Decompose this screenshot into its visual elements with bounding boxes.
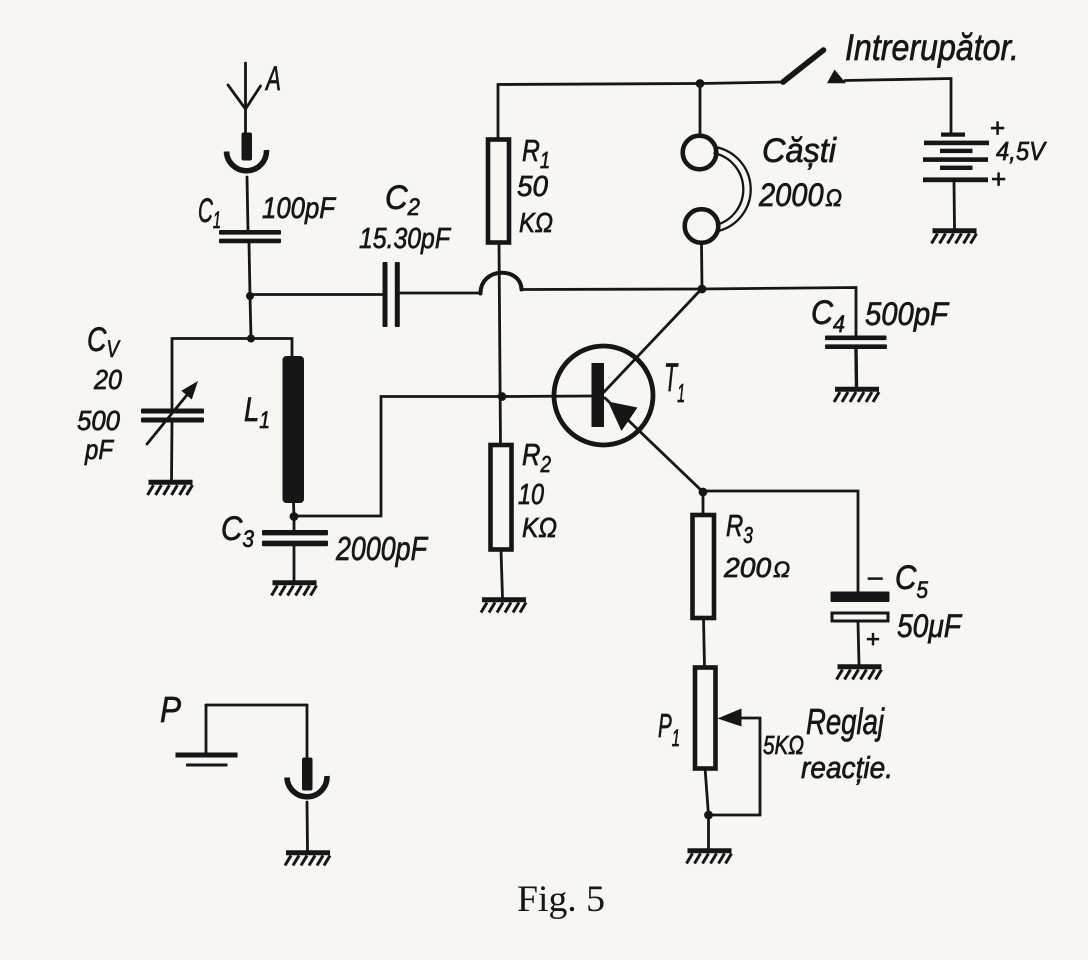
capacitor C2 plates [383,262,388,327]
svg-text:P: P [160,689,181,730]
wire antenna jack to C1 [247,177,248,231]
antenna arms [228,85,261,109]
wire J3 to C3 [293,517,296,531]
wire J6 right to C5 [703,491,858,592]
svg-text:KΩ: KΩ [519,207,553,238]
junction node J1 [246,292,254,300]
wire P1 wiper feedback loop [709,718,760,815]
svg-text:5KΩ: 5KΩ [763,730,804,760]
svg-text:500pF: 500pF [865,296,950,332]
junction node J5 [698,285,707,294]
wire R1 bottom to R2 top [499,243,501,445]
wire J4 to top earphone [699,84,702,137]
wire J2 to L1 top [251,339,292,358]
wire battery bottom to ground [953,182,956,229]
switch blade (open) [783,50,824,82]
P1 wiper arrowhead [718,709,742,727]
capacitor C3 plates [262,530,328,535]
ground under C4 [834,389,879,402]
svg-text:+: + [866,626,880,653]
wire hump to node J5 [521,288,700,291]
wire bottom earphone to J5 [700,244,703,290]
antenna jack plug (filled pin) [242,133,253,161]
svg-text:KΩ: KΩ [522,512,557,543]
wire jack arc to ground [306,802,309,851]
wire C4 to ground [854,349,858,388]
resistor R1 body [488,140,509,243]
svg-text:4,5V: 4,5V [996,136,1047,166]
ground under R2 [481,600,526,613]
wire J4 to switch hinge [700,82,783,84]
resistor R2 body [491,445,512,550]
wire C1 to node J1 [249,243,250,296]
inductor L1 (solid bar) [283,356,305,503]
transistor T1 base bar [592,363,605,427]
svg-text:Intrerupător.: Intrerupător. [845,27,1019,68]
headphone band arcs [715,147,751,231]
wire J1 right to C2 left plate [250,293,383,296]
junction node J6 [699,488,708,497]
svg-text:Căști: Căști [762,132,837,170]
svg-text:2000pF: 2000pF [335,530,428,567]
ground under CV [148,482,193,495]
svg-text:50μF: 50μF [897,608,963,644]
wire switch arrow to battery top [845,79,951,133]
capacitor C4 plates [825,336,887,341]
capacitor C1 plates [219,230,281,235]
CV arrowhead [181,381,198,400]
svg-text:pF: pF [84,434,114,465]
svg-text:–: – [868,561,883,591]
ground under C5 [837,667,882,680]
antenna A mast wire [244,63,247,133]
ground under P jack [285,853,330,866]
earth symbol at P (two bars) [176,753,238,758]
capacitor C5 bottom plate (outline) [832,613,888,621]
wire C3 to ground [293,546,296,581]
junction node J2 [247,335,255,343]
wire L1 bottom to node J3 [292,502,295,517]
wire J3 to base of T1 [294,396,591,516]
svg-text:10: 10 [518,479,544,511]
earphone top cup [683,136,717,170]
emitter arrowhead (PNP, pointing into base) [608,402,638,432]
svg-text:200 Ω: 200 Ω [723,552,790,583]
svg-text:20: 20 [93,364,122,395]
wire P to earth [205,705,208,753]
wire R3 to P1 [704,618,705,667]
svg-text:+: + [991,164,1006,194]
wire J2 left to Cv [172,339,251,410]
junction node J3 [290,512,299,521]
wire R1 top to node J4 [498,84,700,140]
jack plug pin at P terminal [302,758,313,791]
ground under battery [932,231,977,244]
svg-text:A: A [265,60,281,98]
svg-text:reacție.: reacție. [801,750,893,785]
junction node J7 [704,811,713,820]
switch arrow contact [827,70,846,84]
wire J5 right to C4 [700,288,856,337]
junction node J4 [696,79,705,88]
battery B1 plates [941,133,965,137]
wire C2 right plate to hump [400,292,481,295]
CV arrow [147,390,191,444]
emitter wire T1 to node J6 [605,398,703,492]
variable capacitor CV plates [141,409,204,414]
junction node base [498,392,507,401]
jack socket arc at P terminal [287,776,327,797]
wire C5 to ground [858,622,859,665]
wire terminal P horizontal [206,704,307,707]
wire P1 bottom to node J7 and ground [705,768,709,849]
svg-text:100pF: 100pF [262,192,336,225]
resistor R3 body [693,515,715,618]
transistor T1 circle [554,346,653,445]
svg-text:Reglaj: Reglaj [806,701,885,742]
earphone bottom cup [685,209,719,243]
wire P to jack plug [306,705,309,758]
capacitor C5 top plate (solid) [831,592,890,603]
potentiometer P1 body [695,668,716,769]
svg-text:50: 50 [517,171,548,203]
collector wire T1 to J5 [604,290,701,393]
wire Cv to ground [170,422,173,481]
ground under C3 [272,583,317,596]
wire R2 bottom to ground [501,550,503,598]
antenna jack socket arc [227,150,267,171]
svg-text:Fig. 5: Fig. 5 [517,879,605,920]
wire J6 to R3 [702,492,705,515]
svg-text:500: 500 [77,405,120,436]
wire node J1 to node J2 [250,296,251,339]
wire hump over R1-R2 line [481,273,522,294]
svg-text:15.30pF: 15.30pF [359,223,452,255]
ground under P1 [687,851,732,864]
